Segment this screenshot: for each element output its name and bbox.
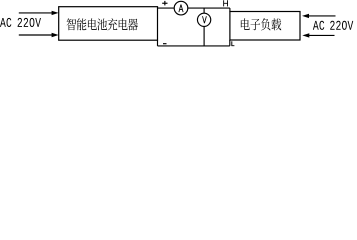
wire: AC mains to load, bottom line with arrow <box>302 33 334 37</box>
wire: voltmeter branch, top stub <box>203 8 205 13</box>
wire: AC mains to load, top line with arrow <box>302 14 336 18</box>
wire: bottom return run to load L terminal <box>158 45 230 47</box>
voltmeter V <box>197 13 210 26</box>
terminal H lead <box>229 8 231 11</box>
terminal L lead <box>229 40 231 46</box>
wire: AC mains to charger, top line with arrow <box>19 11 59 15</box>
label: - polarity mark <box>163 43 167 45</box>
wire: voltmeter branch, bottom stub <box>203 26 205 46</box>
charger box <box>59 7 158 41</box>
label: L terminal <box>231 41 234 45</box>
charger box label: 智能电池充电器 <box>67 18 138 30</box>
label: AC 220V (left mains input) <box>0 18 41 27</box>
label: + polarity mark <box>162 1 167 6</box>
ammeter A <box>174 1 188 15</box>
wire: charger + output to ammeter <box>158 7 175 9</box>
wire: AC mains to charger, bottom line with arrow <box>19 33 59 37</box>
label: AC 220V (right mains input) <box>313 21 353 30</box>
load box <box>230 12 300 41</box>
load box label: 电子负载 <box>241 18 281 30</box>
label: H terminal <box>224 0 228 6</box>
wire: charger - output, drop from box corner <box>157 40 159 46</box>
wire: ammeter to load H terminal <box>188 7 230 9</box>
